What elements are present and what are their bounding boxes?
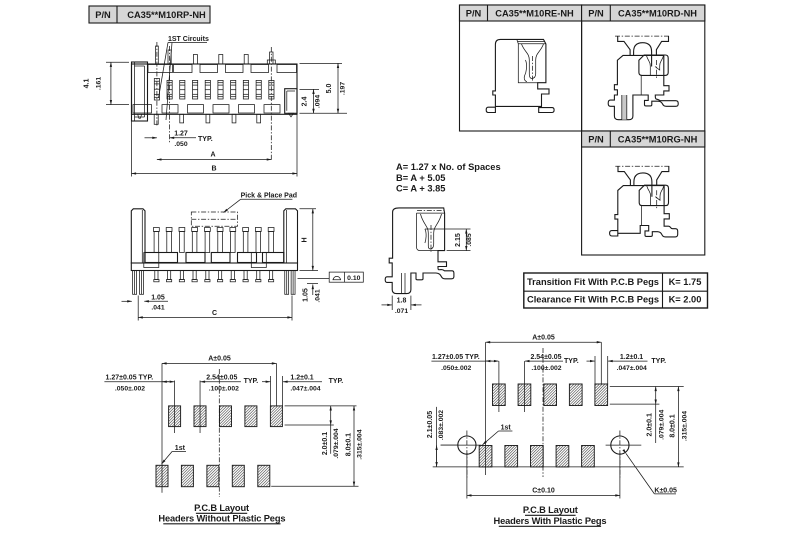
- leader to pin1: [159, 43, 169, 99]
- bottom slots row: [133, 105, 280, 113]
- svg-text:2.0±0.1: 2.0±0.1: [647, 413, 654, 436]
- svg-text:2.54±0.05: 2.54±0.05: [206, 375, 237, 382]
- centerline pad columns: [174, 381, 176, 434]
- svg-text:H: H: [302, 237, 309, 242]
- pad top row: [220, 406, 232, 427]
- contact ladder row (10 contacts): [154, 79, 274, 101]
- pins down: [154, 271, 274, 282]
- dim 1.27/.050 TYP.: [145, 137, 157, 139]
- pad bottom row: [582, 446, 595, 467]
- RG contact centerline: [656, 190, 658, 209]
- SECTION: pcb layout left: [104, 356, 363, 524]
- RD arch: [634, 43, 652, 67]
- base strip: [131, 263, 297, 271]
- SECTION: right cells: [460, 5, 705, 255]
- svg-text:2.1±0.05: 2.1±0.05: [427, 411, 434, 438]
- RD top wafer: [618, 36, 669, 55]
- svg-text:.050: .050: [174, 141, 187, 148]
- RD contact centerline: [655, 60, 657, 79]
- dim 4.1/.161 left: [106, 61, 129, 63]
- svg-text:Pick & Place Pad: Pick & Place Pad: [241, 193, 297, 200]
- cell RD border: [582, 5, 705, 131]
- dim A: [157, 159, 271, 161]
- pad top row: [518, 384, 531, 406]
- svg-text:1.05: 1.05: [151, 295, 165, 302]
- SECTION: top view drawing: [132, 36, 298, 161]
- side view body outline: [385, 208, 454, 294]
- svg-text:1st: 1st: [175, 445, 186, 452]
- svg-text:.050±.002: .050±.002: [115, 386, 145, 393]
- dim 5.0/.197 right: [300, 62, 343, 64]
- svg-text:2.0±0.1: 2.0±0.1: [322, 432, 329, 455]
- bottom pin stubs: [138, 114, 261, 124]
- svg-text:4.1: 4.1: [84, 79, 91, 89]
- top pins: [156, 46, 276, 64]
- SECTION: pcb layout right: [427, 335, 689, 527]
- svg-text:C= A + 3.85: C= A + 3.85: [396, 184, 445, 194]
- pad bottom row: [556, 446, 569, 467]
- svg-text:1st: 1st: [501, 425, 512, 432]
- svg-text:2.54±0.05: 2.54±0.05: [530, 354, 561, 361]
- connector RG profile: [610, 166, 678, 237]
- dim 1.8/.071: [391, 296, 393, 310]
- svg-text:K±0.05: K±0.05: [654, 487, 677, 494]
- pin 1 tall: [156, 46, 159, 64]
- svg-text:P.C.B Layout: P.C.B Layout: [194, 503, 249, 513]
- svg-text:Transition Fit With P.C.B Pegs: Transition Fit With P.C.B Pegs: [527, 277, 659, 287]
- dim C±0.10: [466, 453, 468, 499]
- svg-text:.041: .041: [151, 305, 164, 312]
- svg-text:.085: .085: [466, 233, 473, 246]
- centerline pad columns: [498, 361, 500, 412]
- svg-text:.094: .094: [315, 95, 322, 108]
- RE contact centerline: [531, 56, 533, 82]
- dim K±0.05 leader: [626, 454, 654, 494]
- cap bottom edge: [417, 212, 445, 214]
- RG contact box: [639, 185, 668, 205]
- dim 8.0±0.1 right: [271, 485, 358, 487]
- pad bottom row: [181, 465, 193, 486]
- svg-text:Clearance Fit With P.C.B Pegs: Clearance Fit With P.C.B Pegs: [527, 295, 659, 305]
- svg-text:A= 1.27 x No. of Spaces: A= 1.27 x No. of Spaces: [396, 162, 501, 172]
- centerline pin2: [169, 46, 171, 144]
- svg-text:P/N: P/N: [95, 10, 111, 20]
- svg-text:.197: .197: [340, 82, 347, 95]
- svg-text:CA35**M10RD-NH: CA35**M10RD-NH: [618, 9, 697, 19]
- svg-text:B: B: [211, 166, 216, 173]
- svg-text:1.27±0.05 TYP.: 1.27±0.05 TYP.: [432, 354, 480, 361]
- dim 1.2±0.1: [262, 381, 270, 383]
- SECTION: top-left title block: [89, 6, 210, 23]
- RG arch: [634, 173, 652, 197]
- RD body/contact joint: [640, 75, 642, 95]
- left flange: [132, 62, 148, 121]
- dim 2.1±0.05 left: [441, 444, 458, 446]
- svg-text:1.8: 1.8: [397, 298, 407, 305]
- SECTION: notes: [396, 162, 501, 194]
- SECTION: fit table: [524, 273, 708, 308]
- dim 2.15/.085: [425, 228, 471, 230]
- pad bottom row: [207, 465, 219, 486]
- RD body: [608, 55, 678, 119]
- connector RD profile: [608, 36, 678, 120]
- svg-text:P.C.B Layout: P.C.B Layout: [523, 505, 578, 515]
- centerline pin1: [156, 42, 158, 127]
- svg-text:.161: .161: [96, 77, 103, 90]
- pad bottom row: [258, 465, 270, 486]
- connector body top view: [132, 64, 298, 114]
- RE cavity curves: [522, 44, 533, 79]
- svg-text:.079±.004: .079±.004: [333, 428, 340, 458]
- RE cap lines: [517, 39, 546, 43]
- SECTION: front view drawing: [131, 193, 297, 295]
- svg-text:A±0.05: A±0.05: [208, 356, 231, 363]
- svg-text:TYP.: TYP.: [244, 378, 259, 385]
- SECTION: front view dims: [122, 209, 364, 321]
- RG body: [610, 186, 678, 237]
- pad top row: [194, 406, 206, 427]
- top slots row: [148, 65, 297, 73]
- pad top row: [245, 406, 257, 427]
- flatness callout: [298, 277, 330, 279]
- table border: [524, 273, 708, 308]
- P/N title box CA35**M10RP-NH: [89, 6, 210, 23]
- svg-text:A±0.05: A±0.05: [532, 335, 555, 342]
- RD peg shading: [622, 95, 627, 120]
- cell RE header: [460, 5, 582, 21]
- cell RG header: [582, 131, 705, 147]
- pad bottom row: [479, 446, 492, 467]
- svg-text:CA35**M10RE-NH: CA35**M10RE-NH: [495, 9, 574, 19]
- svg-text:P/N: P/N: [466, 9, 482, 19]
- pins up: [154, 228, 275, 253]
- RE body outline: [486, 39, 554, 112]
- svg-text:1.27±0.05 TYP.: 1.27±0.05 TYP.: [106, 375, 154, 382]
- pick & place pad dashed: [191, 212, 237, 226]
- svg-text:TYP.: TYP.: [329, 378, 344, 385]
- svg-text:1.2±0.1: 1.2±0.1: [290, 375, 313, 382]
- svg-text:K= 2.00: K= 2.00: [669, 295, 702, 305]
- RG top wafer: [618, 166, 669, 185]
- peg inner lines: [401, 273, 403, 294]
- pad bottom row: [531, 446, 544, 467]
- RD carrier strip centerline: [615, 35, 671, 37]
- svg-text:TYP.: TYP.: [198, 136, 213, 143]
- SECTION: top view dimensions: [84, 62, 348, 176]
- svg-text:P/N: P/N: [588, 135, 604, 145]
- raised boxes: [144, 253, 159, 268]
- connector RE profile: [486, 39, 554, 112]
- dim 1.05/.041 bottom left: [122, 300, 132, 302]
- svg-text:.041: .041: [315, 289, 322, 302]
- svg-text:8.0±0.1: 8.0±0.1: [345, 433, 352, 456]
- dim 1.05/.041 right: [307, 283, 318, 285]
- pad rail segments: [145, 253, 284, 263]
- svg-text:Headers With Plastic Pegs: Headers With Plastic Pegs: [494, 516, 607, 526]
- pad top row: [493, 384, 506, 406]
- RG carrier strip centerline: [615, 165, 671, 167]
- svg-text:8.0±0.1: 8.0±0.1: [669, 414, 676, 437]
- svg-text:1.2±0.1: 1.2±0.1: [620, 354, 643, 361]
- svg-text:K= 1.75: K= 1.75: [669, 277, 702, 287]
- svg-text:.079±.004: .079±.004: [658, 409, 665, 439]
- RE inner wall: [518, 44, 537, 83]
- cell RG border: [582, 131, 705, 255]
- pad bottom row: [232, 465, 244, 486]
- peg circle left: [458, 436, 476, 454]
- RG body/contact joint: [641, 206, 643, 226]
- pad top row: [569, 384, 582, 406]
- pad top row: [595, 384, 608, 406]
- svg-text:CA35**M10RG-NH: CA35**M10RG-NH: [618, 135, 698, 145]
- left end post: [131, 209, 145, 263]
- dim 2.0±0.1 right: [285, 405, 357, 407]
- cell RD header: [582, 5, 705, 21]
- svg-text:B= A + 5.05: B= A + 5.05: [396, 173, 445, 183]
- pin stubs: [193, 55, 197, 65]
- svg-text:.047±.004: .047±.004: [617, 365, 647, 372]
- pad top row: [544, 384, 557, 406]
- centerline last pin: [270, 47, 272, 161]
- svg-text:.315±.004: .315±.004: [681, 411, 688, 441]
- svg-text:1.27: 1.27: [174, 131, 188, 138]
- left legs: [133, 271, 137, 295]
- svg-text:.100±.002: .100±.002: [531, 365, 561, 372]
- dim 1.2±0.1: [587, 360, 595, 362]
- cell RE border: [460, 5, 582, 131]
- dim H: [300, 208, 317, 210]
- SECTION: middle side view: [382, 208, 473, 315]
- pad top row: [169, 406, 181, 427]
- svg-text:CA35**M10RP-NH: CA35**M10RP-NH: [127, 10, 206, 20]
- svg-text:2.4: 2.4: [302, 97, 309, 107]
- right legs: [285, 271, 289, 295]
- svg-text:2.15: 2.15: [455, 233, 462, 247]
- inner cavity: [417, 213, 439, 251]
- contact centerline: [430, 225, 432, 252]
- RD contact box: [639, 55, 668, 75]
- svg-text:.047±.004: .047±.004: [290, 386, 320, 393]
- peg circle right: [611, 436, 629, 454]
- dim 8.0±0.1 right: [433, 466, 684, 468]
- svg-text:TYP.: TYP.: [651, 358, 666, 365]
- svg-text:.050±.002: .050±.002: [441, 365, 471, 372]
- svg-text:C±0.10: C±0.10: [532, 488, 555, 495]
- dim A±0.05: [162, 362, 276, 364]
- svg-text:.315±.004: .315±.004: [356, 429, 363, 459]
- svg-text:TYP.: TYP.: [564, 358, 579, 365]
- svg-text:5.0: 5.0: [326, 84, 333, 94]
- svg-text:Headers Without Plastic Pegs: Headers Without Plastic Pegs: [158, 514, 285, 524]
- pad bottom row: [505, 446, 518, 467]
- pad bottom row: [156, 465, 168, 486]
- svg-text:0.10: 0.10: [347, 275, 360, 282]
- svg-text:A: A: [210, 152, 215, 159]
- dim 2.0±0.1 right: [610, 386, 684, 388]
- svg-text:C: C: [212, 310, 217, 317]
- svg-text:.083±.002: .083±.002: [438, 410, 445, 440]
- dim B: [131, 122, 133, 177]
- svg-text:.100±.002: .100±.002: [209, 386, 239, 393]
- dim 2.4/.094 right inner: [300, 88, 320, 90]
- dim C: [137, 296, 139, 321]
- svg-text:1.05: 1.05: [303, 288, 310, 302]
- right end post: [284, 209, 298, 263]
- svg-text:.071: .071: [395, 308, 408, 315]
- dim A±0.05: [486, 341, 602, 343]
- pad top row: [270, 406, 282, 427]
- svg-text:1ST Circuits: 1ST Circuits: [168, 36, 209, 43]
- right flange box: [285, 89, 297, 114]
- svg-text:P/N: P/N: [588, 9, 604, 19]
